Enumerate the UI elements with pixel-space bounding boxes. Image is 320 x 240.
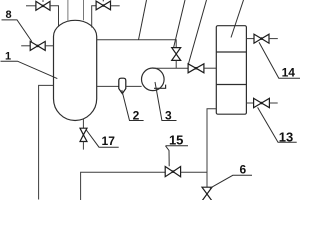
pump 3 (circle)	[142, 68, 165, 91]
wire: top-right valve drop to vessel dome	[92, 6, 96, 28]
valve 6 (vertical, bottom)	[202, 187, 212, 201]
label 17	[102, 134, 116, 148]
leader for label 13	[258, 107, 297, 142]
leader (cropped label) to pipe	[139, 0, 147, 40]
valve top-left (globe valve)	[36, 0, 50, 10]
label 2	[133, 108, 140, 122]
nozzle line N2 (vessel top, right)	[83, 0, 85, 20]
wire: valve 8 outlet to vessel	[45, 45, 53, 47]
valve 13	[254, 98, 270, 107]
valve V5 (vertical, on riser)	[172, 48, 181, 61]
wire: vessel right outlet pipe to riser	[97, 40, 177, 48]
wire: vessel right to strainer 2	[97, 85, 119, 87]
wire: valve V7 to column	[204, 67, 216, 69]
svg-text:6: 6	[239, 163, 246, 177]
nozzle line N1 (vessel top, left)	[67, 0, 69, 22]
leader (cropped label) into top box	[231, 0, 244, 38]
wire: top-left valve outlet to vessel dome	[50, 6, 59, 27]
wire: top box to valve 14	[246, 38, 254, 40]
component 2 (strainer/injector)	[119, 78, 126, 93]
wire: valve 15 to riser tee	[181, 171, 207, 173]
valve top-right (globe valve)	[96, 0, 110, 10]
label 8	[5, 9, 11, 21]
valve 15	[165, 167, 180, 177]
leader for label 15	[166, 145, 189, 147]
wire: bottom recycle pipe	[81, 172, 166, 200]
wire: vessel left side down pipe	[39, 85, 54, 199]
label 3	[165, 108, 172, 122]
valve 17 (drain)	[80, 128, 87, 141]
label 15	[169, 133, 183, 148]
svg-text:17: 17	[102, 134, 116, 148]
wire: strainer 2 to pump	[126, 85, 142, 87]
leader for label 2	[122, 90, 144, 121]
wire: riser lower stem	[175, 60, 177, 68]
leader for label 6	[210, 175, 252, 188]
wire: pump discharge line	[153, 67, 189, 69]
pump 3 volute foot	[154, 85, 166, 89]
wire: valve 13 outlet stub	[269, 102, 277, 104]
svg-text:14: 14	[282, 66, 296, 80]
leader for label 17	[86, 130, 118, 147]
label 13	[279, 129, 293, 144]
wire: vessel drain stem	[82, 119, 84, 128]
wire: drain stem below valve 17	[82, 142, 84, 150]
wire: valve 8 inlet stub	[21, 45, 30, 47]
leader for label 3	[155, 82, 177, 121]
leader for label 1	[1, 61, 58, 78]
leader (cropped label) to vertical valve	[174, 0, 186, 48]
vessel 1 (tank body)	[54, 20, 97, 120]
valve 8	[30, 41, 45, 50]
wire: bottom box outlet to down riser	[207, 109, 216, 187]
wire: bottom box to valve 13	[246, 102, 253, 104]
svg-text:1: 1	[5, 50, 11, 62]
leader (cropped label) to valve V7	[189, 0, 207, 64]
wire: top-left valve inlet	[26, 5, 36, 7]
wire: valve 14 outlet stub	[269, 38, 278, 40]
leader for label 8	[2, 20, 32, 42]
leader for label 14	[259, 42, 300, 78]
valve V7 (before column)	[188, 64, 204, 73]
label 14	[282, 66, 296, 80]
label 1	[5, 50, 11, 62]
column divider upper	[216, 51, 246, 53]
column divider lower	[216, 84, 246, 86]
label 6	[239, 163, 246, 177]
valve 14	[254, 34, 269, 43]
column (3-section box)	[216, 26, 246, 115]
wire: top-right valve outlet stub	[111, 5, 120, 7]
